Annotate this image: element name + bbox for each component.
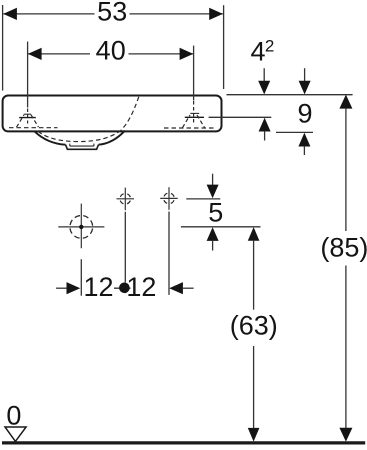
drain hole drop line <box>80 259 82 296</box>
basin bottom level stub line <box>276 131 313 133</box>
tap hole right volcano dashed sides <box>183 115 205 128</box>
dim 12-12 left leader <box>56 287 67 289</box>
dim 12-12 center stub <box>114 287 131 289</box>
svg-text:2: 2 <box>265 37 274 56</box>
basin top level line to right <box>227 94 353 96</box>
drain hole cross <box>58 204 104 249</box>
dim 12-12 right arrow <box>169 282 183 294</box>
svg-text:(85): (85) <box>320 233 367 263</box>
svg-text:(63): (63) <box>230 310 278 340</box>
dim 4x2 down arrow col1 <box>263 68 265 82</box>
drain tab trapezoid <box>66 145 99 150</box>
tap hole left volcano dashed sides <box>17 115 39 127</box>
dim 40 left arrow <box>28 48 42 60</box>
tap hole left dashed base <box>9 127 58 129</box>
tap hole level line to right <box>209 116 272 118</box>
drain hole center dot <box>79 225 83 229</box>
dim 53 left arrow <box>3 8 17 20</box>
svg-text:12: 12 <box>126 272 156 302</box>
tap hole left small tick <box>24 113 31 115</box>
svg-text:4: 4 <box>250 37 265 67</box>
tap hole left extension line (40) <box>27 42 29 108</box>
dim 53 left extension line <box>2 5 4 91</box>
svg-text:0: 0 <box>6 400 21 430</box>
mounting hole right crosshair circle <box>164 193 175 204</box>
dim 63 upper line <box>253 240 255 309</box>
dim 85 lower line <box>345 266 347 430</box>
dim 12-12 dot <box>119 283 130 294</box>
mounting hole left drop line <box>124 212 126 283</box>
bowl underside solid arc right <box>99 131 125 145</box>
svg-text:53: 53 <box>97 0 127 27</box>
bowl underside solid arc left <box>35 131 66 144</box>
dim 5 down arrow <box>212 174 214 186</box>
svg-text:40: 40 <box>96 36 126 66</box>
dim 85 upper line <box>345 108 347 231</box>
mounting hole left crosshair circle <box>120 194 131 205</box>
dim 12-12 right leader <box>183 287 194 289</box>
tap hole right small tick <box>190 112 199 114</box>
mounting hole right drop line <box>168 212 170 295</box>
dim 53 line <box>3 13 223 15</box>
dim 4x2 up arrow col1 <box>259 118 271 132</box>
basin outline rounded rect <box>3 96 222 132</box>
tap hole right cross line <box>185 116 204 118</box>
dim 53 right arrow <box>209 8 223 20</box>
tap hole left cross line <box>19 117 36 119</box>
dim 63 top arrow <box>248 227 260 241</box>
dim 5 up arrow <box>207 227 219 241</box>
dim 85 top arrow <box>339 95 352 109</box>
svg-text:9: 9 <box>297 98 312 128</box>
datum triangle <box>5 427 26 441</box>
tap hole right extension line (40) <box>193 46 195 101</box>
dim 63 lower line <box>253 346 255 429</box>
dim 40 right arrow <box>180 48 194 60</box>
tap hole right dashed base <box>164 127 215 129</box>
dim 9 up arrow col2 <box>298 133 310 147</box>
dim 4x2 down arrow col2 <box>304 68 306 82</box>
bowl underside dashed arc <box>38 131 121 142</box>
mounting hole left cross <box>117 188 135 211</box>
dim 5 lower line <box>181 226 261 228</box>
mounting hole right cross <box>160 187 178 210</box>
drain tab inner line <box>70 144 94 147</box>
dim 53 right extension line <box>223 5 225 89</box>
svg-text:12: 12 <box>83 272 113 302</box>
floor line <box>2 441 365 444</box>
tap hole right dashed vertical <box>193 101 195 124</box>
basin interior bowl hidden edge (dashed curve) <box>121 97 139 131</box>
drain hole dashed circle <box>70 216 93 239</box>
dim 85 bottom arrow <box>339 428 352 442</box>
dim 63 bottom arrow <box>248 428 260 442</box>
dim 12-12 left arrow <box>67 282 81 294</box>
dim 40 line <box>28 53 193 55</box>
svg-text:5: 5 <box>208 197 223 227</box>
tap hole left dashed vertical <box>27 109 29 124</box>
dim 5 upper line <box>186 198 220 200</box>
